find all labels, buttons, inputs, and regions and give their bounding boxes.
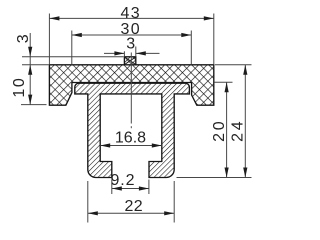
svg-text:10: 10 <box>11 78 28 98</box>
dimension 22 (channel outer width) <box>87 181 89 223</box>
dimension 9.2 (bottom slot) <box>111 180 113 195</box>
svg-text:16.8: 16.8 <box>115 129 146 146</box>
svg-text:22: 22 <box>125 198 143 215</box>
dimension 16.8 (inner width) <box>100 145 162 147</box>
dimension 30 <box>71 31 73 65</box>
dimension 10 (left) <box>21 104 47 106</box>
svg-text:9.2: 9.2 <box>111 172 135 189</box>
dimension 43 <box>48 14 50 65</box>
dimension 20 (right) <box>214 81 232 83</box>
dimension 3 (left, bump height) <box>22 56 124 58</box>
svg-text:3: 3 <box>126 36 135 53</box>
svg-text:3: 3 <box>15 34 32 43</box>
profile part 2: hat channel (diagonal hatch) <box>75 83 190 177</box>
dimension 3 (top center, bump width) <box>104 52 124 54</box>
profile part 1: center bump 3x3 on top <box>124 57 135 65</box>
centerline (vertical dash-dot) <box>130 53 132 124</box>
svg-text:43: 43 <box>120 5 139 22</box>
profile part 1: top plate with end blocks (cross-hatched) <box>49 65 213 105</box>
dimension 24 (right) <box>215 64 252 66</box>
